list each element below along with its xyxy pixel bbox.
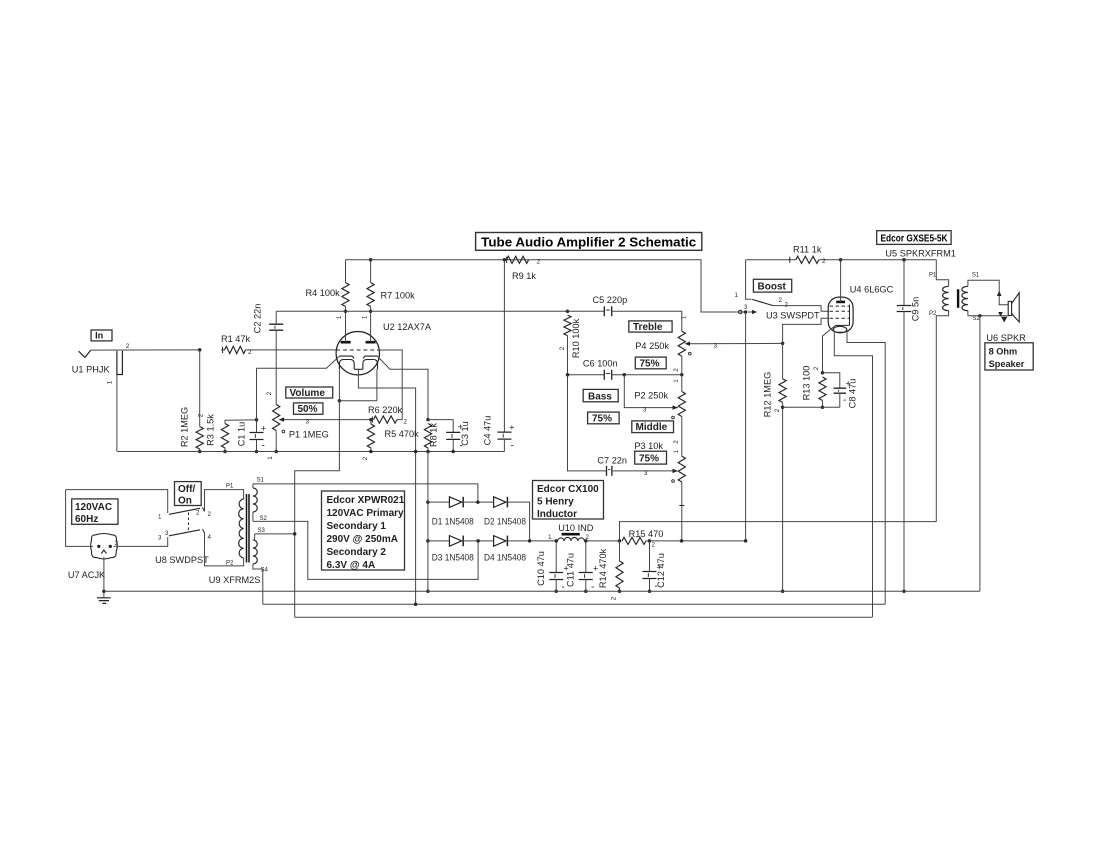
- resistor R11 1k: [746, 256, 841, 263]
- svg-text:R7 100k: R7 100k: [381, 291, 416, 301]
- junction C10 bottom on ground bus: [554, 590, 558, 594]
- junction R15.2 / C12: [648, 539, 652, 543]
- capacitor C2 22n: [269, 311, 283, 391]
- svg-text:P4 250k: P4 250k: [635, 341, 669, 351]
- junction C9 bottom on ground bus: [902, 590, 906, 594]
- resistor R5 470k: [367, 420, 374, 452]
- svg-text:U5 SPKRXFRM1: U5 SPKRXFRM1: [885, 249, 955, 259]
- svg-text:R15 470: R15 470: [629, 529, 664, 539]
- svg-text:60Hz: 60Hz: [75, 514, 98, 525]
- pin 1 tick R11: [789, 257, 791, 263]
- node A junction (R1/R2 input node): [198, 348, 202, 352]
- svg-text:Middle: Middle: [636, 422, 668, 433]
- svg-text:4: 4: [208, 534, 212, 541]
- svg-text:R11 1k: R11 1k: [793, 245, 822, 255]
- wire U2 heater center tap pin9 to S4 bus: [358, 369, 415, 604]
- svg-text:C1 1u: C1 1u: [237, 422, 247, 447]
- svg-text:1: 1: [735, 292, 739, 299]
- junction R10 top: [566, 310, 570, 314]
- junction C11 top: [584, 539, 588, 543]
- junction bridge negative on ground bus: [426, 590, 430, 594]
- resistor R14 470k: [616, 541, 623, 591]
- svg-text:S2: S2: [260, 516, 268, 522]
- wire C5 to P4 top: [612, 311, 682, 331]
- junction U2 heater CT on S4 bus: [414, 602, 418, 606]
- capacitor C8 47u: [823, 373, 851, 408]
- wire D3 cathode to D4 anode: [463, 540, 493, 542]
- resistor R3 1.5k: [221, 420, 256, 452]
- wire S3 to heater feed: [255, 533, 295, 535]
- svg-text:S4: S4: [261, 568, 269, 574]
- svg-text:Secondary 1: Secondary 1: [327, 521, 387, 532]
- wire cathode2 to R8: [377, 356, 428, 420]
- svg-text:Tube Audio Amplifier 2 Schemat: Tube Audio Amplifier 2 Schematic: [481, 234, 696, 249]
- svg-text:R8 1k: R8 1k: [429, 423, 439, 447]
- svg-text:P2: P2: [929, 311, 937, 317]
- potentiometer P4 250k (Treble): [678, 331, 782, 375]
- junction bass branch: [623, 373, 627, 377]
- junction C1 bottom on ground bus: [255, 450, 259, 454]
- junction C4 / R9 on B+ wire: [503, 258, 507, 262]
- svg-text:U10 IND: U10 IND: [558, 523, 594, 533]
- Boost box label: [753, 279, 791, 292]
- wire B+ riser to R15 node: [745, 312, 747, 541]
- svg-text:C2 22n: C2 22n: [253, 304, 263, 334]
- svg-text:R13 100: R13 100: [802, 366, 812, 401]
- svg-text:R4 100k: R4 100k: [306, 288, 341, 298]
- svg-text:2: 2: [126, 343, 130, 350]
- svg-text:R2 1MEG: R2 1MEG: [180, 407, 190, 447]
- svg-text:6.3V @ 4A: 6.3V @ 4A: [327, 560, 376, 571]
- svg-text:On: On: [178, 495, 192, 506]
- wire U4 heater pin to S3 bus: [834, 332, 872, 617]
- svg-text:U7 ACJK: U7 ACJK: [68, 570, 106, 580]
- pin 1 tick R1: [222, 347, 224, 353]
- junction cathode2 / R8 / C3: [426, 418, 430, 422]
- svg-text:Volume: Volume: [290, 388, 326, 399]
- wire C7 branch down and right: [568, 375, 607, 471]
- wire D4 cathode to filter: [507, 540, 556, 542]
- junction heater pins 4-5: [338, 399, 342, 403]
- svg-text:3: 3: [643, 406, 647, 413]
- capacitor C6 100n: [604, 370, 611, 380]
- pin 1 tick R6: [371, 417, 373, 423]
- svg-text:C8 47u: C8 47u: [848, 379, 858, 409]
- wire bass branch to P2 wiper: [624, 375, 678, 408]
- junction U10 pin1 / C10: [554, 539, 558, 543]
- switch U3 SWSPDT (Boost): [739, 260, 774, 314]
- diode D2 1N5408: [494, 497, 508, 508]
- svg-text:2: 2: [611, 596, 618, 600]
- svg-text:S3: S3: [258, 528, 266, 534]
- junction R7 plate node: [369, 310, 372, 313]
- svg-text:C10 47u: C10 47u: [536, 551, 546, 586]
- wire jack earth down: [103, 557, 105, 598]
- capacitor C4 47u: [497, 260, 514, 452]
- arrow on speaker minus lead: [998, 312, 1003, 317]
- triode U2 12AX7A: [336, 332, 379, 375]
- svg-text:R9 1k: R9 1k: [512, 271, 536, 281]
- svg-text:3: 3: [306, 418, 310, 425]
- switch U8 SWDPST: [169, 508, 205, 536]
- svg-text:1: 1: [267, 456, 274, 460]
- potentiometer P2 250k (Bass): [672, 375, 686, 456]
- svg-text:U9 XFRM2S: U9 XFRM2S: [209, 575, 261, 585]
- wire jack tip to node A: [91, 349, 200, 351]
- junction D3 anode: [426, 539, 430, 543]
- wire to D3: [428, 540, 450, 542]
- svg-text:290V @ 250mA: 290V @ 250mA: [327, 534, 398, 545]
- junction P3 bottom on B+ node: [680, 539, 684, 543]
- svg-text:Edcor XPWR021: Edcor XPWR021: [327, 495, 405, 506]
- junction B+ at boost switch: [744, 310, 748, 314]
- junction P1 bottom on ground bus: [274, 450, 278, 454]
- Edcor GXSE5-5K box: [877, 231, 951, 245]
- Middle box label: [632, 421, 674, 433]
- svg-text:P1 1MEG: P1 1MEG: [289, 430, 329, 440]
- svg-text:3: 3: [644, 470, 648, 477]
- Treble 75% box: [635, 357, 666, 369]
- potentiometer P3 10k (Middle): [612, 456, 686, 541]
- junction cathode1/R3/C1: [255, 418, 259, 422]
- svg-text:3: 3: [158, 535, 162, 542]
- svg-text:1: 1: [158, 514, 162, 521]
- arrow on speaker plus lead: [997, 291, 1002, 296]
- transformer U9 core: [247, 494, 250, 563]
- junction C12 bottom on ground bus: [648, 590, 652, 594]
- svg-text:C4 47u: C4 47u: [483, 416, 493, 446]
- svg-text:P2: P2: [226, 561, 234, 567]
- wire U2 heater pin4 down: [338, 369, 340, 401]
- svg-text:U1 PHJK: U1 PHJK: [72, 365, 111, 375]
- wire U4 cathode down to R13: [823, 325, 836, 372]
- wire AC hot to switch pin1: [66, 490, 168, 513]
- resistor R10 100k: [564, 315, 571, 375]
- junction S1 into bridge: [476, 500, 480, 504]
- junction P1 wiper / R6 / R5: [369, 418, 373, 422]
- wire R15 node to B+ riser: [650, 540, 746, 542]
- junction C11 bottom on ground bus: [584, 590, 588, 594]
- resistor R9 1k: [507, 256, 529, 263]
- wire B+ from plate resistors to boost switch throw: [346, 260, 746, 312]
- svg-text:R1 47k: R1 47k: [221, 334, 251, 344]
- svg-text:Off/: Off/: [178, 484, 195, 495]
- resistor R6 220k: [374, 416, 403, 423]
- wire U4 heater pin to S4 bus: [847, 332, 885, 604]
- svg-text:8 Ohm: 8 Ohm: [989, 346, 1018, 356]
- wire D1 cathode to D2 anode: [463, 501, 493, 503]
- wire U2 heater pin5 down: [376, 369, 378, 401]
- wire grid2 to R6: [379, 350, 402, 420]
- junction DC+ rail: [528, 539, 532, 543]
- svg-text:2: 2: [404, 419, 408, 426]
- junction R7 top on B+ wire: [369, 258, 373, 262]
- svg-text:C11 47u: C11 47u: [565, 553, 575, 587]
- svg-text:-: -: [511, 441, 514, 452]
- wire R10 top to C5: [568, 310, 605, 312]
- svg-text:C6 100n: C6 100n: [583, 359, 618, 369]
- junction C9 top: [902, 258, 906, 262]
- transformer U5 secondary: [962, 280, 1008, 316]
- wire speaker ground to ground bus: [979, 316, 981, 592]
- pin 1 tick R9: [506, 257, 508, 263]
- junction B+ riser bottom: [744, 539, 748, 543]
- wire S4 heater bus: [263, 603, 885, 605]
- capacitor C1 1u: [250, 420, 267, 452]
- svg-text:C3 1u: C3 1u: [460, 421, 470, 446]
- resistor R7 100k: [367, 260, 374, 342]
- wire R10 bottom to C6: [568, 374, 605, 376]
- wire R8 to C3: [428, 419, 453, 421]
- resistor R4 100k: [342, 260, 349, 342]
- wire cathode1 horizontal and diagonal into U2: [257, 356, 340, 368]
- speaker U6 SPKR: [1008, 293, 1019, 322]
- capacitor C12 47u: [643, 541, 662, 592]
- svg-text:U8 SWDPST: U8 SWDPST: [155, 555, 209, 565]
- svg-text:2: 2: [537, 259, 541, 266]
- svg-text:120VAC Primary: 120VAC Primary: [327, 508, 405, 519]
- input jack U1 PHJK: [79, 350, 123, 374]
- wire C6 to P4 bottom P2 top: [612, 374, 682, 376]
- svg-text:Bass: Bass: [588, 391, 612, 402]
- svg-text:+: +: [509, 423, 514, 433]
- transformer U5 core: [957, 289, 959, 308]
- svg-text:C9 5n: C9 5n: [911, 297, 921, 322]
- svg-text:S1: S1: [972, 273, 980, 279]
- wire switch pin2 to transformer P1: [205, 490, 244, 512]
- svg-text:2: 2: [362, 456, 369, 460]
- svg-text:2: 2: [774, 408, 781, 412]
- wire to D1: [428, 501, 450, 503]
- svg-text:U2 12AX7A: U2 12AX7A: [383, 322, 432, 332]
- svg-text:120VAC: 120VAC: [75, 502, 112, 513]
- wire choke node to OT P2: [620, 522, 937, 541]
- wire jack sleeve down to ground bus: [116, 375, 118, 452]
- svg-text:Edcor CX100: Edcor CX100: [537, 484, 599, 495]
- Edcor CX100 box: [533, 481, 604, 521]
- svg-text:C5 220p: C5 220p: [593, 295, 628, 305]
- svg-text:C12 47u: C12 47u: [656, 553, 666, 588]
- wire S2 around box to bridge node D3-D4: [253, 521, 478, 579]
- svg-text:U6 SPKR: U6 SPKR: [986, 333, 1026, 343]
- svg-text:P2 250k: P2 250k: [634, 391, 668, 401]
- svg-text:2: 2: [559, 346, 566, 350]
- transformer U9 secondary 2 coil: [253, 534, 263, 604]
- capacitor C3 1u: [446, 420, 463, 452]
- diode D1 1N5408: [449, 497, 463, 508]
- junction P4.2 / P2.1: [680, 373, 683, 376]
- svg-text:P1: P1: [226, 484, 234, 490]
- junction R8 bottom on ground bus: [426, 450, 430, 454]
- wire S3 heater bus: [295, 616, 873, 618]
- wire bridge negative rail to upper ground bus: [427, 452, 429, 592]
- svg-text:3: 3: [714, 343, 718, 350]
- svg-text:R5 470k: R5 470k: [385, 429, 420, 439]
- svg-text:In: In: [95, 330, 104, 340]
- svg-text:-: -: [262, 441, 265, 452]
- junction R10 bottom / C7 branch: [566, 373, 570, 377]
- svg-text:+: +: [261, 424, 266, 434]
- transformer U9 XFRM2S primary coil: [239, 499, 244, 558]
- junction D1 anode: [426, 500, 430, 504]
- junction R3 bottom on ground bus: [223, 450, 227, 454]
- wire upper ground bus: [118, 451, 505, 453]
- capacitor C10 47u: [549, 541, 569, 593]
- svg-text:75%: 75%: [640, 358, 660, 369]
- wire AC jack pin2 to switch pin3: [114, 537, 168, 546]
- resistor R8 1k: [424, 424, 431, 452]
- svg-text:2: 2: [266, 391, 273, 395]
- svg-text:1: 1: [107, 380, 114, 384]
- svg-text:Secondary 2: Secondary 2: [327, 547, 387, 558]
- transformer U9 secondary 1 coil: [253, 484, 257, 522]
- svg-text:D2 1N5408: D2 1N5408: [484, 517, 526, 527]
- resistor R12 1MEG: [779, 343, 786, 591]
- junction C3 bottom on ground bus: [451, 450, 455, 454]
- junction R2 bottom on ground bus: [198, 450, 202, 454]
- wire AC left down to jack: [66, 490, 93, 547]
- svg-text:C7 22n: C7 22n: [597, 455, 627, 465]
- junction S2 into bridge: [476, 539, 480, 543]
- Middle 75% box: [635, 451, 667, 464]
- resistor R13 100: [819, 377, 826, 407]
- ground arrow below speaker: [1001, 317, 1007, 323]
- junction earth on ground bus: [102, 590, 106, 594]
- Edcor XPWR021 box: [322, 491, 405, 571]
- svg-text:D4 1N5408: D4 1N5408: [484, 553, 526, 563]
- junction R13 bottom: [821, 405, 825, 409]
- svg-text:5 Henry: 5 Henry: [537, 497, 574, 508]
- wire plate node to OT P1: [841, 259, 937, 261]
- svg-text:2: 2: [208, 511, 212, 518]
- wire heater pins to transformer S3: [295, 401, 340, 618]
- svg-text:D3 1N5408: D3 1N5408: [432, 553, 474, 563]
- wire joining heater outer pins: [339, 400, 377, 402]
- wire U4 plate to B+ node: [840, 260, 842, 302]
- Volume box label: [286, 387, 333, 399]
- junction R15 / R14 / OT feed: [618, 539, 622, 543]
- potentiometer P1 1MEG (Volume): [273, 391, 371, 452]
- AC jack U7 ACJK: [91, 534, 118, 560]
- wire R1 to U2 grid 1: [251, 349, 336, 351]
- Bass box label: [583, 389, 618, 402]
- svg-text:2: 2: [779, 297, 783, 304]
- wire main ground bus: [104, 590, 980, 592]
- junction R12 bottom on ground bus: [781, 590, 785, 594]
- 120VAC 60Hz box: [72, 499, 118, 525]
- capacitor C7 22n: [607, 466, 612, 476]
- svg-text:Speaker: Speaker: [989, 359, 1025, 369]
- junction R5 bottom on ground bus: [369, 450, 373, 454]
- diode D3 1N5408: [449, 536, 463, 547]
- svg-text:Boost: Boost: [758, 282, 787, 293]
- svg-text:S1: S1: [257, 478, 265, 484]
- svg-text:75%: 75%: [639, 454, 659, 465]
- beam tetrode U4 6L6GC: [828, 297, 853, 333]
- capacitor C9 5n: [897, 260, 912, 592]
- wire plate node to tone stack: [276, 310, 567, 312]
- junction speaker ground riser: [978, 314, 981, 317]
- Bass 75% box: [588, 412, 620, 424]
- svg-text:R6 220k: R6 220k: [368, 405, 403, 415]
- capacitor C5 220p: [604, 306, 611, 316]
- svg-text:2: 2: [198, 413, 205, 417]
- resistor R1 47k: [221, 346, 251, 353]
- svg-text:-: -: [843, 395, 846, 406]
- wire R13/C8 bottom to R12: [783, 406, 840, 408]
- svg-text:Treble: Treble: [633, 322, 663, 333]
- wire D2 cathode to DC+ rail: [507, 502, 529, 541]
- title box Tube Audio Amplifier 2 Schematic: [476, 233, 702, 251]
- wire U10 to R15: [585, 540, 620, 542]
- resistor R15 470: [622, 537, 650, 544]
- svg-text:U3 SWSPDT: U3 SWSPDT: [766, 310, 820, 320]
- svg-text:50%: 50%: [298, 404, 318, 415]
- svg-text:R3 1.5k: R3 1.5k: [206, 414, 216, 446]
- svg-text:U4 6L6GC: U4 6L6GC: [850, 285, 894, 295]
- svg-text:2: 2: [652, 542, 656, 549]
- junction R14 bottom on ground bus: [618, 590, 622, 594]
- svg-text:D1 1N5408: D1 1N5408: [432, 517, 474, 527]
- capacitor C11 47u: [579, 541, 598, 593]
- Off/On box: [175, 482, 202, 507]
- junction heater CT on upper ground bus: [414, 450, 418, 454]
- resistor R2 1MEG: [196, 350, 203, 452]
- wire switch pin4 to transformer P2: [205, 533, 244, 566]
- svg-text:2: 2: [822, 258, 826, 265]
- Volume 50% box: [294, 403, 323, 415]
- junction R12 / R13 bottom wire: [781, 405, 785, 409]
- junction U4 plate / R11 / OT wire: [839, 258, 843, 262]
- junction R4 plate node: [344, 310, 347, 313]
- diode D4 1N5408: [494, 536, 508, 547]
- svg-text:R10 100k: R10 100k: [571, 318, 581, 358]
- svg-text:P3 10k: P3 10k: [634, 441, 663, 451]
- wire S1 to bridge node D1-D2: [253, 484, 478, 502]
- junction S3 / heater wire: [293, 532, 297, 536]
- svg-text:75%: 75%: [592, 413, 612, 424]
- svg-text:R12 1MEG: R12 1MEG: [763, 372, 773, 417]
- svg-text:Edcor GXSE5-5K: Edcor GXSE5-5K: [881, 233, 949, 244]
- 8 Ohm Speaker box: [985, 343, 1033, 370]
- svg-text:R14 470k: R14 470k: [598, 548, 608, 588]
- Treble box label: [629, 321, 672, 333]
- ground symbol: [97, 598, 111, 604]
- wire cathode1 vertical: [256, 368, 258, 420]
- svg-text:Inductor: Inductor: [537, 509, 577, 520]
- svg-text:P1: P1: [929, 273, 937, 279]
- wire R12 top to U4 grid3: [783, 318, 829, 343]
- junction R13 top / C8 top: [821, 371, 825, 375]
- wire U3 pin2 to U4 grid1: [773, 306, 829, 312]
- junction P4 wiper / R12 / U4 grid3: [781, 342, 785, 346]
- inductor U10 IND (Edcor CX100): [558, 534, 585, 541]
- transformer U5 SPKRXFRM1 primary: [936, 260, 948, 522]
